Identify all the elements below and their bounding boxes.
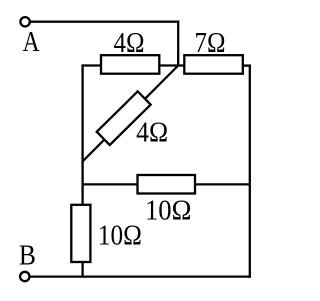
wire R1 right stub — [158, 64, 185, 66]
resistor R5 10ohm vertical — [71, 205, 90, 262]
svg-text:4Ω: 4Ω — [114, 28, 145, 59]
svg-text:A: A — [23, 27, 41, 58]
resistor R3 4ohm diagonal — [97, 91, 151, 145]
svg-text:10Ω: 10Ω — [98, 221, 142, 252]
resistor R4 10ohm horizontal — [138, 175, 196, 194]
svg-text:B: B — [19, 241, 36, 272]
svg-text:4Ω: 4Ω — [136, 118, 168, 149]
wire bottom — [30, 275, 251, 277]
wire R2 to right rail — [243, 64, 251, 66]
svg-text:7Ω: 7Ω — [195, 28, 226, 59]
terminal A — [20, 17, 29, 26]
wire stub row to R1 and junction to R2 — [83, 64, 102, 66]
wire middle — [83, 183, 250, 185]
svg-text:10Ω: 10Ω — [145, 195, 192, 226]
wire from A to top-right corner and drop to junction — [31, 22, 179, 66]
wire left rail — [81, 64, 83, 276]
wire diagonal from junction to left rail — [83, 66, 178, 162]
resistor R1 4ohm horizontal — [101, 55, 159, 73]
resistor R2 7ohm — [184, 55, 243, 73]
wire right rail — [249, 65, 251, 278]
terminal B — [20, 272, 29, 281]
